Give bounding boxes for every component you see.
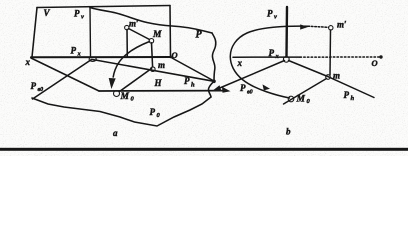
svg-text:P: P [74, 9, 80, 19]
svg-text:P: P [150, 107, 156, 117]
svg-text:в0: в0 [38, 87, 44, 93]
svg-text:H: H [154, 78, 163, 88]
svg-text:P: P [196, 30, 203, 41]
svg-text:M: M [296, 95, 306, 105]
svg-text:v: v [81, 14, 84, 21]
svg-text:m′: m′ [337, 20, 347, 30]
svg-text:m′: m′ [129, 19, 139, 29]
svg-text:O: O [372, 58, 378, 68]
svg-text:x: x [237, 58, 243, 68]
svg-text:V: V [44, 8, 51, 18]
svg-text:M: M [120, 92, 130, 102]
svg-text:a: a [113, 128, 118, 138]
svg-text:P: P [267, 9, 273, 19]
svg-text:P: P [344, 90, 350, 100]
svg-text:M: M [152, 30, 162, 40]
svg-text:O: O [172, 50, 178, 60]
svg-text:b: b [286, 127, 291, 137]
svg-text:в0: в0 [247, 90, 253, 96]
svg-text:P: P [31, 81, 37, 91]
svg-text:m: m [158, 60, 165, 70]
svg-text:v: v [274, 14, 277, 21]
svg-text:h: h [191, 82, 195, 89]
svg-text:P: P [71, 46, 77, 56]
svg-text:P: P [240, 83, 246, 93]
svg-text:P: P [184, 76, 190, 86]
svg-text:m: m [333, 71, 340, 81]
svg-text:x: x [25, 57, 31, 67]
svg-text:P: P [269, 48, 275, 58]
svg-text:h: h [351, 95, 355, 102]
